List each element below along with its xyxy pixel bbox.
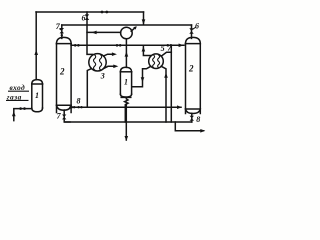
valve left column top (7) bbox=[60, 28, 64, 33]
wire riser from vessel 1 to T1 bbox=[35, 12, 37, 80]
svg-text:6: 6 bbox=[82, 14, 86, 23]
arrow down on exchanger5 outlet drop bbox=[141, 77, 145, 82]
arrow right exchanger3 top outlet bbox=[112, 52, 117, 56]
valve right column top (6) bbox=[189, 28, 193, 33]
adsorber column 2 left bbox=[57, 37, 72, 112]
svg-text:1: 1 bbox=[124, 78, 128, 87]
arrow left on pump suction bbox=[91, 31, 96, 35]
arrow up on downcomer x166 bbox=[164, 73, 168, 78]
flange dots on T1 bbox=[101, 11, 104, 14]
svg-text:1: 1 bbox=[35, 91, 39, 100]
wire exchanger 5 top right to M bbox=[161, 52, 171, 56]
wire feed drop from M to exchanger 5 bbox=[143, 45, 150, 55]
wire pump drop line to heater vessel bbox=[125, 39, 127, 68]
heat exchanger 3 bbox=[89, 54, 106, 71]
arrow right on M at right column bbox=[179, 44, 184, 48]
wire main regeneration line M bbox=[71, 44, 184, 46]
flange dots on M right bbox=[167, 44, 170, 47]
arrow right exchanger3 bottom outlet bbox=[113, 65, 118, 69]
wire exchanger 5 outlet to heater vessel bbox=[132, 66, 151, 86]
heat exchanger 5 bbox=[149, 54, 164, 69]
wire exchanger 3 bottom right outlet bbox=[104, 66, 116, 68]
wire second header T2 bbox=[62, 24, 192, 26]
flange dots on M near left column bbox=[74, 44, 77, 47]
svg-text:6: 6 bbox=[195, 22, 199, 31]
leader tick for label 7 left bbox=[59, 29, 62, 31]
wire bottom bus1 bbox=[70, 106, 181, 108]
svg-text:5: 5 bbox=[161, 44, 165, 53]
wire pump suction line bbox=[87, 31, 121, 33]
blower 4 bbox=[121, 27, 136, 39]
node dot left column stub bbox=[61, 34, 63, 36]
svg-text:8: 8 bbox=[196, 115, 200, 124]
wire corner T1 down to T2 bbox=[143, 12, 145, 24]
wire left column bottom outlet stub bbox=[64, 110, 70, 122]
wire bottom bus2 bbox=[65, 121, 192, 123]
svg-text:3: 3 bbox=[100, 72, 105, 81]
flange dots on inlet bbox=[19, 107, 22, 110]
svg-text:2: 2 bbox=[59, 67, 65, 77]
wire exchanger 3 bottom left drop to bus1 bbox=[87, 69, 91, 108]
arrow up on riser x36 bbox=[34, 50, 38, 55]
wire central drain with zigzag bbox=[125, 97, 128, 122]
wire top header T1 bbox=[36, 11, 144, 13]
svg-text:2: 2 bbox=[188, 64, 194, 74]
arrow up on gas inlet bbox=[12, 111, 16, 116]
heater vessel 1 center bbox=[120, 67, 131, 97]
wire right column bottom outlet stub bbox=[191, 113, 193, 122]
valve right column bottom (8) bbox=[190, 116, 194, 121]
valve left column bottom (7) bbox=[62, 115, 66, 120]
valve on V1 (6) bbox=[85, 14, 89, 20]
wire exchanger 3 top right outlet bbox=[104, 54, 115, 56]
label вход газа bbox=[6, 83, 29, 102]
adsorber column 2 right bbox=[186, 37, 201, 113]
wire bus2 drain branch bbox=[175, 122, 203, 131]
wire gas inlet bbox=[14, 109, 32, 121]
wire valve riser V1 from T1 down to heat exchanger 3 bbox=[87, 12, 93, 54]
arrow down on V2 bbox=[142, 19, 146, 24]
wire right column top valve stub bbox=[191, 25, 193, 38]
arrow up on exchanger5 feed bbox=[142, 47, 146, 52]
arrow down on central drain bbox=[125, 136, 129, 141]
flange dots on bus1 bbox=[71, 106, 73, 108]
wire left column top valve stub bbox=[61, 25, 63, 38]
arrow on blower flag bbox=[133, 26, 137, 29]
arrow up on pump drop bbox=[125, 51, 129, 56]
arrow right on bus1 bbox=[177, 105, 182, 109]
wire vertical from M down to bus2 bbox=[170, 45, 172, 122]
arrow right on bottom drain bbox=[200, 129, 205, 133]
svg-text:8: 8 bbox=[77, 97, 81, 106]
wire exchanger 5 bottom right downcomer bbox=[161, 66, 166, 122]
separator vessel 1 left bbox=[32, 80, 43, 112]
flange dots on M center bbox=[116, 44, 119, 47]
leader tick for label 6 right bbox=[193, 27, 197, 30]
